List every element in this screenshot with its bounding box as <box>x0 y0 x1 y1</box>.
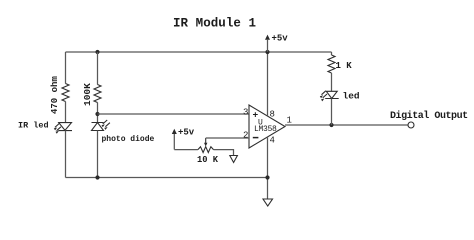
power +5v (top) <box>265 34 288 53</box>
wire left branch from top rail to R1 <box>65 52 67 84</box>
svg-text:470 ohm: 470 ohm <box>50 76 60 114</box>
ground (below op-amp) <box>263 199 273 206</box>
junction top rail / +5v <box>265 50 269 54</box>
svg-text:IR Module 1: IR Module 1 <box>173 17 256 31</box>
svg-text:+5v: +5v <box>272 34 289 44</box>
wire to pot left end <box>174 149 198 151</box>
wire photo diode to bottom rail <box>97 131 99 178</box>
junction pin3 tee <box>95 112 99 116</box>
led <box>320 91 339 102</box>
resistor 1 K <box>328 55 335 73</box>
junction bottom rail / photo diode branch <box>95 175 99 179</box>
wire pin 3 input <box>98 113 250 115</box>
svg-text:led: led <box>343 91 360 102</box>
wire 1K branch from top rail <box>331 52 333 55</box>
junction bottom rail / pin 4 <box>265 175 269 179</box>
svg-text:10 K: 10 K <box>197 155 219 165</box>
ground (pot) <box>230 156 238 163</box>
op-amp U1 LM358 <box>249 105 285 148</box>
svg-text:1: 1 <box>287 115 292 125</box>
resistor 100K <box>94 85 101 103</box>
svg-text:4: 4 <box>270 136 275 146</box>
svg-text:+5v: +5v <box>178 128 195 138</box>
wire output pin 1 <box>285 124 408 126</box>
power +5v (pot) <box>172 128 195 138</box>
wire pin 4 down <box>267 137 269 199</box>
wire +5v down to pot <box>173 134 175 150</box>
potentiometer 10 K <box>198 138 214 153</box>
wire IR led to bottom rail <box>65 131 67 178</box>
svg-text:1 K: 1 K <box>336 61 353 71</box>
wire 100K to photo diode <box>97 103 99 124</box>
IR led <box>54 123 72 134</box>
photo diode <box>92 120 110 131</box>
svg-text:IR led: IR led <box>18 121 49 131</box>
resistor 470 ohm <box>62 84 69 102</box>
svg-text:photo diode: photo diode <box>102 135 155 144</box>
wire pin 8 to top rail <box>267 52 269 116</box>
svg-text:Digital Output: Digital Output <box>390 110 468 122</box>
wire R1 to IR led <box>65 102 67 124</box>
wire bottom rail <box>66 177 268 179</box>
svg-text:100K: 100K <box>82 83 93 106</box>
junction top rail / 100K branch <box>95 50 99 54</box>
wire pot right end to ground <box>214 150 234 156</box>
svg-text:LM358: LM358 <box>254 125 277 134</box>
svg-text:3: 3 <box>243 108 248 118</box>
wire 1K to led <box>331 73 333 91</box>
wire wiper to pin 2 <box>206 137 249 139</box>
wire top rail <box>66 51 332 53</box>
terminal Digital Output <box>408 122 414 128</box>
junction output / led branch <box>329 123 333 127</box>
wire led to output junction <box>331 99 333 126</box>
svg-text:2: 2 <box>243 131 248 141</box>
svg-text:8: 8 <box>270 110 275 120</box>
wire 100K branch from top rail <box>97 52 99 85</box>
